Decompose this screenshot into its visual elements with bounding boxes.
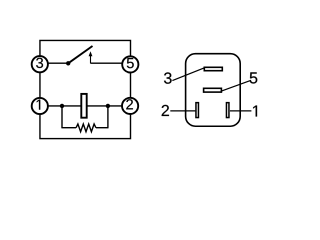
label 1 pointer line bbox=[230, 110, 252, 112]
terminal 2 circle bbox=[122, 98, 138, 114]
wire: coil line from terminal 1 to coil bbox=[46, 105, 82, 107]
pin 2 slot bbox=[196, 103, 199, 118]
wire: resistor right lead bbox=[96, 127, 109, 129]
pin label 1 bbox=[253, 105, 257, 116]
node: switch pivot junction dot bbox=[66, 61, 70, 65]
label 2 pointer line bbox=[170, 110, 195, 112]
arrow: fixed contact arrow pointing up to blade bbox=[90, 55, 92, 64]
pin 5 slot bbox=[204, 88, 222, 92]
digit 3 in terminal 3 circle bbox=[36, 58, 43, 68]
connector body (relay socket face view) bbox=[186, 54, 241, 127]
pin label 5 bbox=[250, 72, 258, 83]
terminal 5 circle bbox=[122, 56, 138, 72]
node: right junction dot bbox=[106, 104, 110, 108]
wire: contact line from terminal 3 to switch pivot bbox=[46, 62, 68, 64]
digit 1 in terminal 1 circle bbox=[37, 100, 41, 110]
wire: resistor left lead bbox=[61, 127, 76, 129]
wire: contact line from arrow to terminal 5 bbox=[91, 62, 125, 64]
digit 5 in terminal 5 circle bbox=[127, 58, 134, 68]
label 5 pointer line bbox=[221, 80, 251, 91]
pin label 2 bbox=[162, 105, 169, 116]
wire: right stub down to resistor branch bbox=[107, 106, 109, 128]
wire: coil line from coil to terminal 2 bbox=[87, 105, 125, 107]
pin 1 slot bbox=[226, 103, 229, 118]
terminal 1 circle bbox=[32, 98, 48, 114]
pin label 3 bbox=[164, 72, 172, 83]
wire: left stub down to resistor branch bbox=[61, 106, 63, 128]
label 3 pointer line bbox=[172, 68, 203, 81]
terminal 3 circle bbox=[32, 56, 48, 72]
pin 3 slot bbox=[204, 67, 222, 70]
relay coil (rectangle symbol) bbox=[81, 94, 86, 118]
resistor (zigzag) in parallel with coil bbox=[76, 124, 96, 132]
switch blade (movable contact) bbox=[68, 46, 92, 63]
wire: outer frame of relay schematic bbox=[40, 40, 131, 138]
digit 2 in terminal 2 circle bbox=[126, 99, 133, 109]
node: left junction dot bbox=[60, 104, 64, 108]
